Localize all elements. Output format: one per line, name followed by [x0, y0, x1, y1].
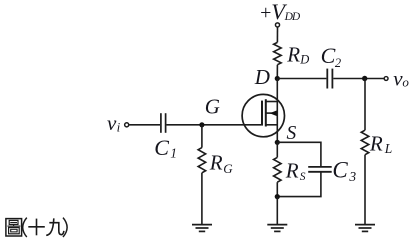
label C2: [321, 43, 342, 70]
svg-text:2: 2: [335, 56, 341, 70]
wire bottom node to ground: [276, 197, 278, 225]
wire RD to node D: [276, 65, 278, 79]
terminal vo: [384, 77, 388, 81]
MOSFET Q1 source/body tap with arrow: [266, 112, 278, 114]
svg-text:R: R: [369, 131, 383, 155]
svg-text:DD: DD: [284, 11, 301, 23]
wire RG to ground: [201, 173, 203, 225]
MOSFET Q1 body circle: [242, 94, 284, 136]
resistor RD: [274, 42, 282, 64]
svg-text:3: 3: [348, 169, 356, 184]
svg-text:D: D: [299, 52, 309, 66]
wire RS to bottom node: [276, 182, 278, 196]
svg-text:R: R: [209, 151, 223, 175]
node D junction dot: [275, 76, 280, 81]
node G junction dot: [199, 122, 204, 127]
wire drain-source vertical line D to S: [276, 79, 278, 143]
terminal +VDD: [275, 23, 279, 27]
label C1: [154, 135, 177, 161]
label RD: [286, 42, 309, 66]
node S junction dot: [275, 140, 280, 145]
svg-text:L: L: [384, 141, 393, 156]
label C3: [332, 157, 356, 184]
svg-text:i: i: [117, 119, 121, 134]
ground (RS): [267, 225, 287, 232]
terminal vi: [125, 123, 129, 127]
wire C2 to vo: [333, 78, 384, 80]
svg-text:C: C: [154, 135, 169, 160]
MOSFET Q1 drain tap: [266, 101, 278, 103]
wire C1 to gate: [167, 124, 262, 126]
resistor RG: [198, 148, 206, 173]
svg-text:R: R: [286, 42, 300, 66]
svg-text:R: R: [285, 158, 299, 182]
label vo: [393, 67, 409, 91]
svg-text:G: G: [205, 95, 220, 119]
resistor RS: [274, 157, 282, 182]
ground (RG): [192, 225, 212, 232]
wire S to RS: [276, 142, 278, 157]
label RL: [369, 131, 392, 156]
capacitor C1: [161, 113, 166, 133]
wire vi to C1: [129, 124, 160, 126]
svg-text:S: S: [287, 123, 297, 144]
svg-text:C: C: [332, 157, 348, 182]
resistor RL: [361, 130, 369, 155]
wire VDD to RD: [276, 27, 278, 42]
label +VDD: [260, 0, 301, 24]
MOSFET Q1 source tap: [266, 124, 278, 126]
svg-text:G: G: [223, 161, 233, 176]
capacitor C3: [308, 167, 332, 172]
svg-text:v: v: [107, 111, 117, 135]
wire C3 to bottom node: [277, 172, 321, 197]
capacitor C2: [327, 69, 332, 89]
label RG: [209, 151, 234, 176]
wire S to C3 branch: [277, 142, 321, 167]
label vi: [107, 111, 121, 135]
MOSFET Q1 gate bar: [261, 101, 263, 126]
wire D to C2: [277, 78, 326, 80]
node junction dot RS/C3 bottom: [275, 194, 280, 199]
svg-text:D: D: [254, 65, 270, 89]
caption 圖(十九) figure nineteen: [6, 218, 67, 237]
wire junction to RL: [364, 79, 366, 131]
wire G to RG: [201, 125, 203, 148]
svg-text:+: +: [260, 2, 271, 24]
node junction dot at RL top: [362, 76, 367, 81]
wire RL to ground: [364, 155, 366, 225]
MOSFET Q1 channel bar: [265, 99, 267, 126]
svg-text:C: C: [321, 43, 336, 68]
svg-text:1: 1: [170, 146, 177, 161]
ground (RL): [355, 225, 375, 232]
svg-text:o: o: [402, 74, 409, 89]
label RS: [285, 158, 306, 183]
svg-text:S: S: [300, 171, 306, 183]
